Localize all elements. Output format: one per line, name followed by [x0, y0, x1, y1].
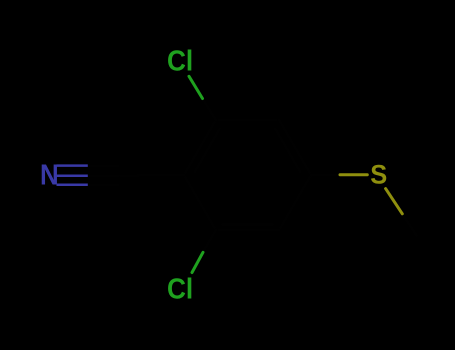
- benzene ring (carbon bonds, near-black): [88, 99, 417, 253]
- wire: C1 to nitrile carbon single bond: [118, 174, 184, 178]
- wire: Cl half of bottom C-Cl bond: [192, 252, 203, 272]
- wire: carbon half of top C-Cl bond: [203, 99, 216, 121]
- svg-text:S: S: [370, 160, 387, 190]
- wire: triple bond line middle: [57, 174, 88, 177]
- wire: ring edge TL-TR: [216, 119, 279, 122]
- chlorine bond halves (green): [189, 76, 203, 272]
- nitrile triple bond, nitrogen halves (blue): [57, 166, 88, 185]
- sulfur bond halves (olive): [340, 175, 402, 214]
- wire: carbon half of bottom C-Cl bond: [203, 230, 216, 252]
- svg-text:N: N: [40, 159, 59, 191]
- wire: ring edge BL-L: [184, 175, 216, 230]
- wire: carbon half of C4-S bond: [311, 173, 340, 176]
- wire: S half of C4-S bond: [340, 173, 367, 176]
- wire: triple bond line top: [57, 164, 88, 167]
- wire: inner double bond TR-R: [276, 129, 301, 172]
- wire: ring edge BR-BL: [216, 229, 279, 232]
- wire: inner double bond L-TL: [195, 129, 220, 172]
- wire: carbon half of S-CH3 bond: [402, 214, 416, 236]
- wire: ring edge TR-R: [279, 120, 311, 175]
- svg-text:Cl: Cl: [167, 46, 193, 78]
- svg-text:Cl: Cl: [167, 273, 193, 305]
- wire: inner double bond BR-BL: [222, 223, 273, 226]
- wire: triple bond line bottom: [57, 184, 88, 187]
- wire: ring edge R-BR: [279, 175, 311, 230]
- wire: Cl half of top C-Cl bond: [189, 76, 203, 98]
- wire: carbon halves of C#N triple bond: [88, 164, 118, 167]
- wire: S half of S-CH3 bond: [386, 189, 403, 214]
- wire: ring edge L-TL: [184, 120, 216, 175]
